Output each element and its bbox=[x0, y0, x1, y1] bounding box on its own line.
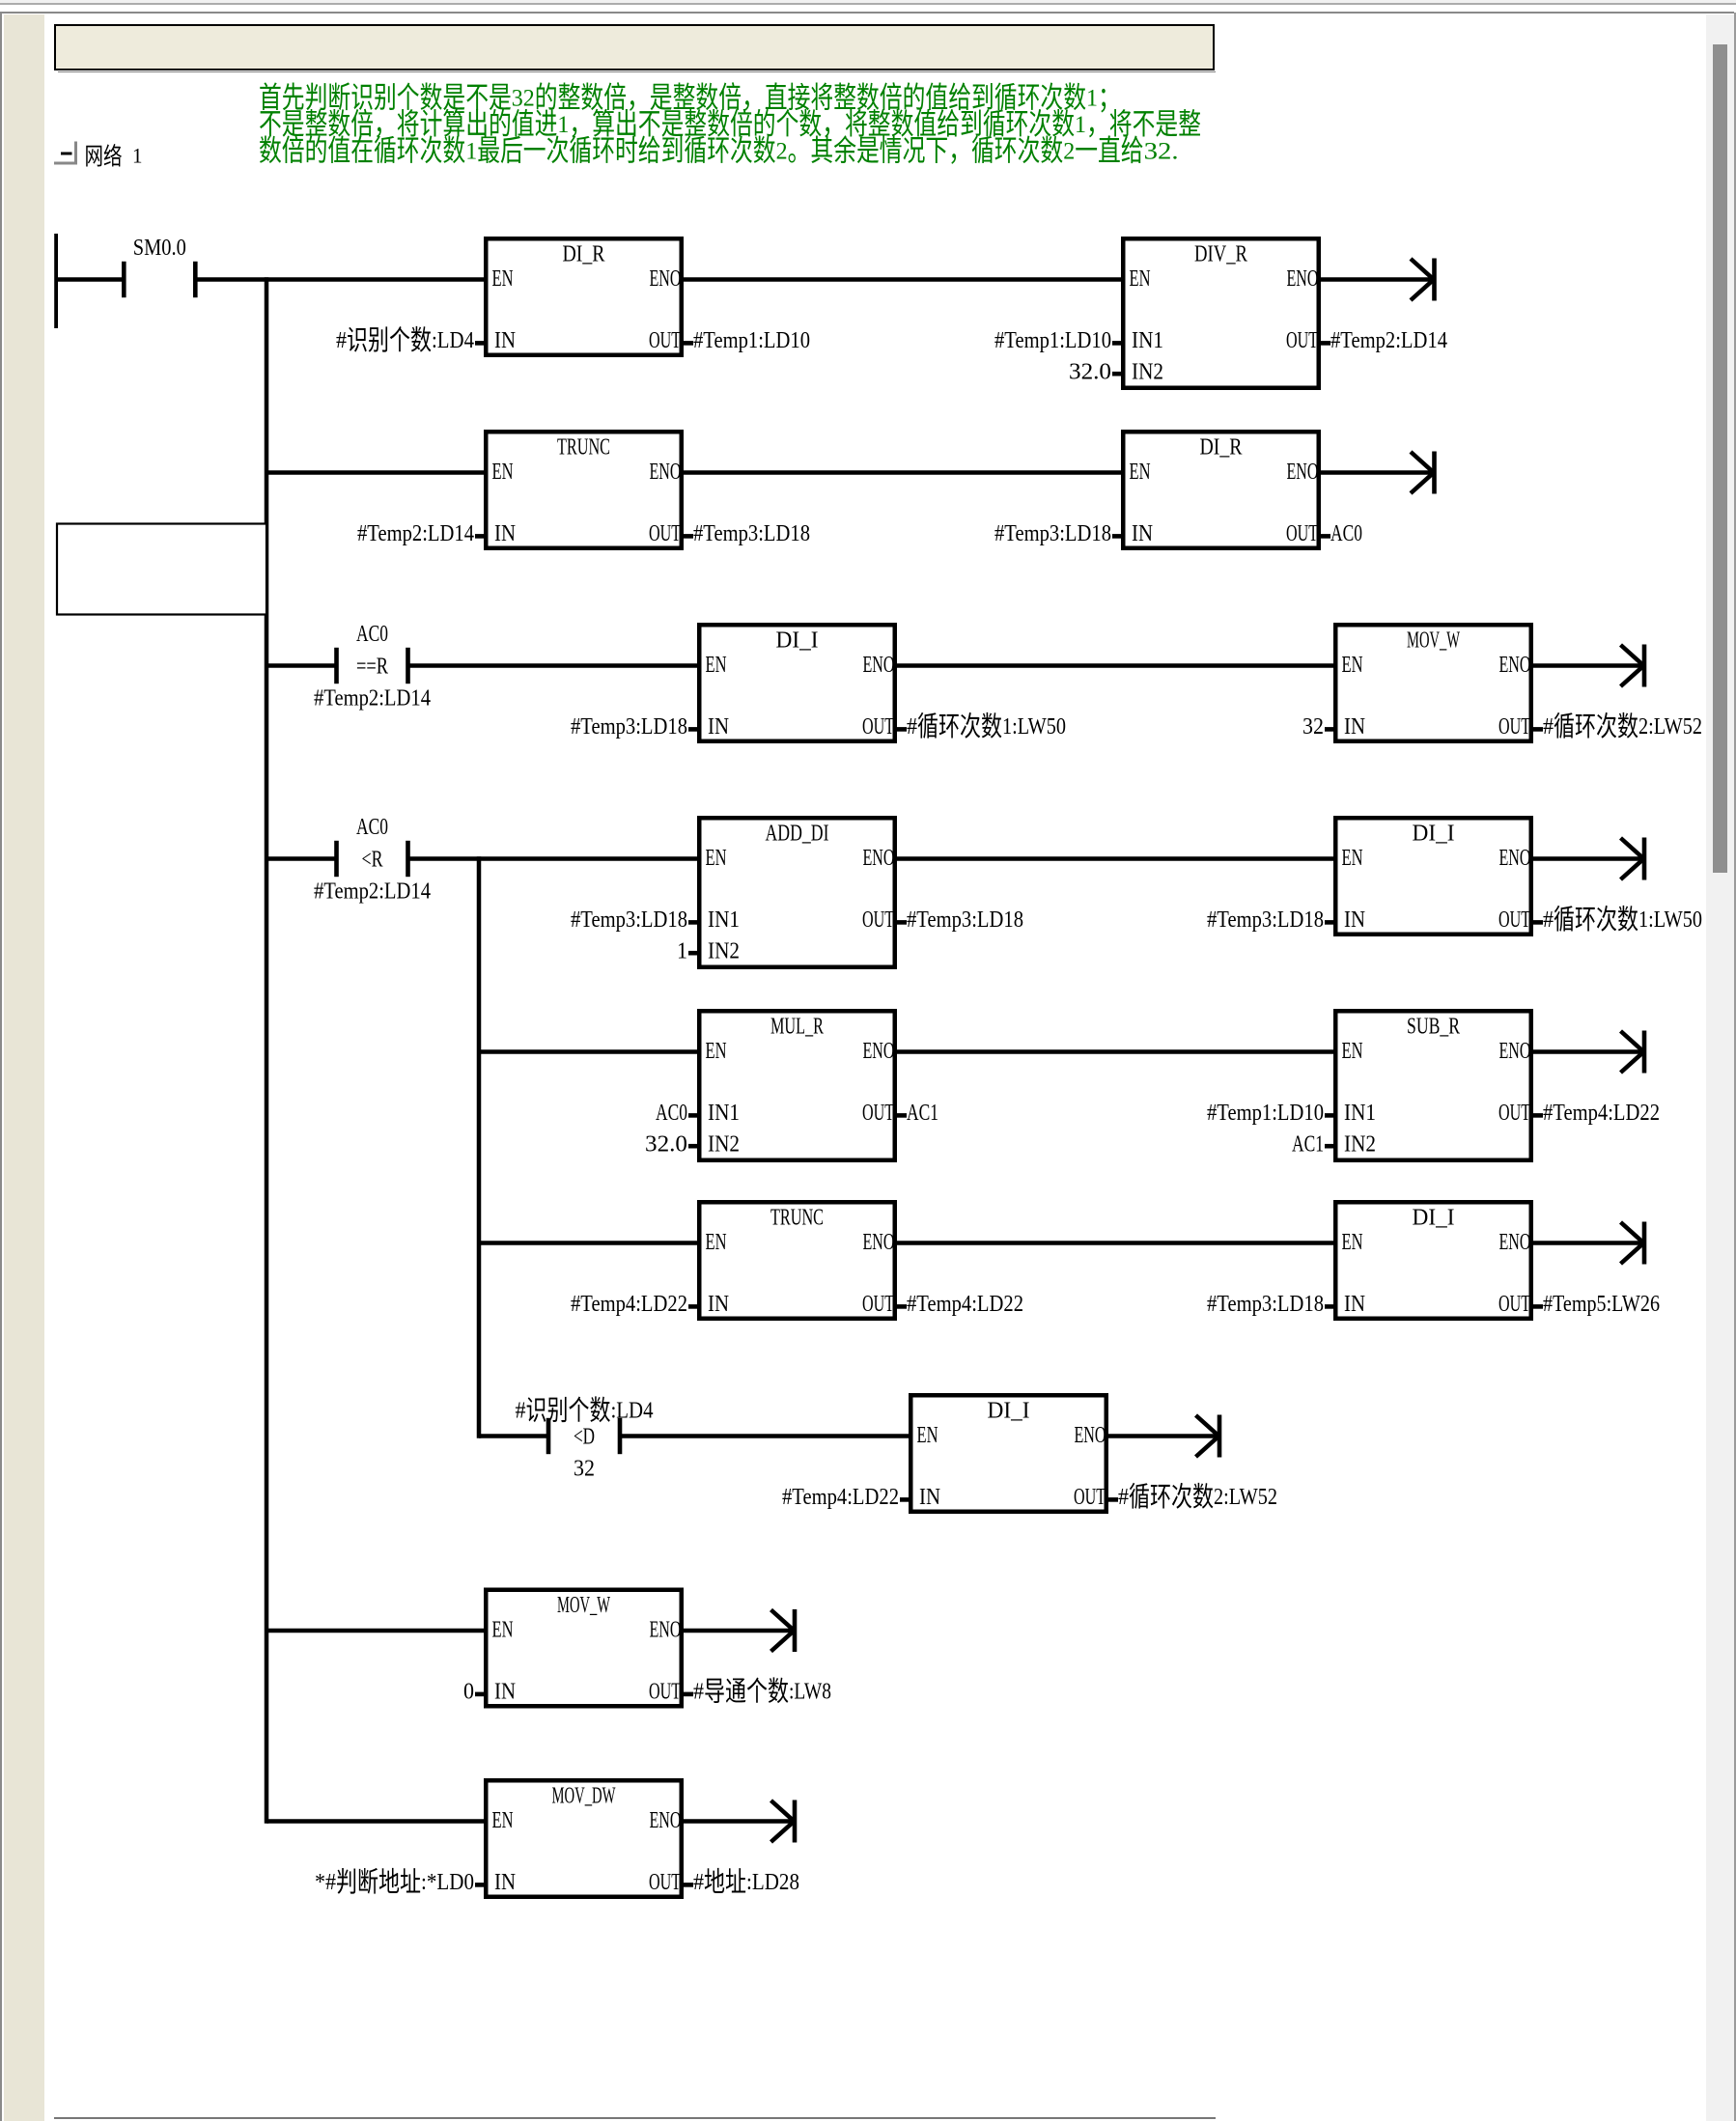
svg-text:IN: IN bbox=[1344, 907, 1365, 933]
svg-text:OUT: OUT bbox=[1498, 907, 1530, 933]
svg-text:#: # bbox=[907, 714, 917, 740]
svg-text:32: 32 bbox=[574, 1457, 595, 1482]
svg-text:EN: EN bbox=[706, 846, 727, 871]
svg-text:ENO: ENO bbox=[650, 460, 682, 485]
svg-text:1:LW50: 1:LW50 bbox=[1638, 907, 1702, 933]
sub branch wire bbox=[477, 856, 482, 1437]
svg-text:网络: 网络 bbox=[85, 144, 123, 171]
function block TRUNC U3 bbox=[357, 432, 810, 548]
svg-text:IN: IN bbox=[919, 1485, 940, 1510]
svg-text:1: 1 bbox=[465, 139, 477, 165]
svg-text:==R: ==R bbox=[356, 655, 388, 680]
svg-text:IN2: IN2 bbox=[708, 939, 740, 964]
svg-text:<D: <D bbox=[574, 1425, 595, 1450]
svg-text:MOV_W: MOV_W bbox=[1407, 628, 1460, 654]
function block DI_I U13 bbox=[782, 1395, 1277, 1513]
wire bbox=[479, 1241, 697, 1245]
svg-text:OUT: OUT bbox=[862, 1292, 894, 1317]
svg-text::LD4: :LD4 bbox=[432, 328, 474, 353]
svg-text::LD28: :LD28 bbox=[746, 1870, 799, 1895]
svg-text:SM0.0: SM0.0 bbox=[133, 236, 186, 261]
svg-text:EN: EN bbox=[706, 1039, 727, 1064]
svg-text:IN: IN bbox=[494, 1870, 516, 1895]
svg-text:IN1: IN1 bbox=[1132, 328, 1163, 353]
svg-text:#Temp5:LW26: #Temp5:LW26 bbox=[1543, 1292, 1660, 1317]
svg-text:IN: IN bbox=[1344, 1292, 1365, 1317]
svg-text:IN: IN bbox=[708, 714, 729, 740]
svg-text:2: 2 bbox=[1063, 139, 1075, 165]
svg-text:IN1: IN1 bbox=[1344, 1101, 1376, 1126]
svg-text:SUB_R: SUB_R bbox=[1407, 1015, 1460, 1040]
svg-text:ENO: ENO bbox=[863, 653, 895, 678]
svg-text:ENO: ENO bbox=[1499, 1039, 1531, 1064]
svg-text:IN: IN bbox=[1344, 714, 1365, 740]
svg-text:MOV_DW: MOV_DW bbox=[552, 1784, 616, 1809]
contact compare ==R bbox=[314, 622, 431, 712]
wire bbox=[1533, 1241, 1642, 1245]
svg-text:2:LW52: 2:LW52 bbox=[1638, 714, 1702, 740]
svg-text:OUT: OUT bbox=[862, 1101, 894, 1126]
wire bbox=[56, 277, 124, 282]
svg-text:OUT: OUT bbox=[1498, 1101, 1530, 1126]
svg-text:1: 1 bbox=[132, 144, 143, 168]
svg-text:#Temp2:LD14: #Temp2:LD14 bbox=[1330, 328, 1447, 353]
window right border bbox=[1734, 13, 1736, 2121]
svg-text:IN: IN bbox=[494, 328, 516, 353]
svg-text:EN: EN bbox=[706, 653, 727, 678]
svg-text:数倍的值在循环次数: 数倍的值在循环次数 bbox=[259, 134, 465, 168]
svg-text:IN: IN bbox=[494, 521, 516, 546]
wire bbox=[684, 1629, 793, 1633]
svg-text:AC1: AC1 bbox=[1292, 1132, 1324, 1158]
svg-text:MUL_R: MUL_R bbox=[770, 1015, 824, 1040]
svg-text:DI_I: DI_I bbox=[776, 628, 819, 654]
window chrome top light strip bbox=[0, 0, 1736, 3]
svg-text:ENO: ENO bbox=[863, 1039, 895, 1064]
contact compare <R bbox=[314, 815, 431, 905]
svg-text:1: 1 bbox=[677, 939, 687, 964]
svg-text:32.0: 32.0 bbox=[645, 1132, 687, 1158]
svg-text:#: # bbox=[693, 1870, 704, 1895]
wire bbox=[897, 1241, 1333, 1245]
svg-text:识别个数: 识别个数 bbox=[526, 1396, 611, 1427]
function block DI_I U8 bbox=[1207, 818, 1702, 935]
wire bbox=[1533, 856, 1642, 861]
function block MOV_DW U15 bbox=[315, 1780, 799, 1898]
wire bbox=[684, 470, 1121, 475]
svg-text:#: # bbox=[693, 1680, 704, 1705]
arrow continuation A7 bbox=[1196, 1415, 1222, 1458]
svg-text:0: 0 bbox=[463, 1680, 474, 1705]
svg-text:#Temp3:LD18: #Temp3:LD18 bbox=[907, 907, 1023, 933]
svg-text::*LD0: :*LD0 bbox=[421, 1870, 474, 1895]
title bar shadow bottom bbox=[58, 71, 1216, 73]
svg-text:32: 32 bbox=[1302, 714, 1324, 740]
svg-text:#Temp3:LD18: #Temp3:LD18 bbox=[1207, 907, 1324, 933]
svg-text:判断地址: 判断地址 bbox=[336, 1867, 421, 1898]
svg-text:IN1: IN1 bbox=[708, 1101, 740, 1126]
svg-text:#Temp2:LD14: #Temp2:LD14 bbox=[314, 686, 431, 712]
next network separator line at bottom bbox=[54, 2117, 1216, 2119]
svg-text:IN: IN bbox=[708, 1292, 729, 1317]
svg-text:ADD_DI: ADD_DI bbox=[766, 822, 829, 847]
function block DI_I U5 bbox=[571, 625, 1066, 742]
svg-text:EN: EN bbox=[706, 1230, 727, 1255]
svg-text:DI_R: DI_R bbox=[1200, 435, 1243, 460]
window chrome top line 2 bbox=[0, 12, 1734, 14]
svg-text:EN: EN bbox=[492, 460, 514, 485]
svg-text:DI_I: DI_I bbox=[988, 1399, 1030, 1424]
arrow continuation A9 bbox=[771, 1800, 798, 1843]
function block MUL_R U9 bbox=[645, 1011, 938, 1160]
svg-text:DI_I: DI_I bbox=[1413, 822, 1455, 847]
function block SUB_R U10 bbox=[1207, 1011, 1660, 1160]
svg-text:EN: EN bbox=[492, 1808, 514, 1833]
svg-text:ENO: ENO bbox=[1499, 846, 1531, 871]
arrow continuation A6 bbox=[1621, 1222, 1647, 1265]
svg-text:一直给: 一直给 bbox=[1075, 134, 1143, 168]
svg-text:#: # bbox=[516, 1399, 526, 1424]
svg-text::LD4: :LD4 bbox=[611, 1399, 654, 1424]
svg-text:32.: 32. bbox=[1144, 139, 1179, 165]
svg-text:OUT: OUT bbox=[1074, 1485, 1106, 1510]
svg-text:ENO: ENO bbox=[863, 846, 895, 871]
wire bbox=[1107, 1434, 1218, 1438]
svg-text:ENO: ENO bbox=[1499, 1230, 1531, 1255]
svg-text:#Temp3:LD18: #Temp3:LD18 bbox=[994, 521, 1111, 546]
wire bbox=[1321, 277, 1433, 282]
window left border bbox=[0, 13, 2, 2121]
svg-text:OUT: OUT bbox=[1286, 521, 1318, 546]
svg-text:TRUNC: TRUNC bbox=[557, 435, 610, 460]
svg-text:OUT: OUT bbox=[649, 1680, 681, 1705]
label network 1 bbox=[85, 144, 143, 171]
svg-text:#Temp4:LD22: #Temp4:LD22 bbox=[571, 1292, 687, 1317]
window chrome top line 1 bbox=[0, 3, 1736, 5]
svg-text:#Temp1:LD10: #Temp1:LD10 bbox=[1207, 1101, 1324, 1126]
wire bbox=[408, 663, 698, 668]
svg-text:#Temp3:LD18: #Temp3:LD18 bbox=[571, 714, 687, 740]
svg-text:#: # bbox=[336, 328, 347, 353]
svg-text:导通个数: 导通个数 bbox=[704, 1677, 789, 1708]
svg-text:EN: EN bbox=[1342, 846, 1363, 871]
svg-text::LW8: :LW8 bbox=[789, 1680, 831, 1705]
function block DI_R U1 bbox=[336, 238, 810, 356]
svg-text:#Temp3:LD18: #Temp3:LD18 bbox=[571, 907, 687, 933]
svg-text:#Temp1:LD10: #Temp1:LD10 bbox=[994, 328, 1111, 353]
svg-text:循环次数: 循环次数 bbox=[1129, 1482, 1214, 1513]
svg-text:ENO: ENO bbox=[1075, 1423, 1106, 1448]
svg-text:OUT: OUT bbox=[862, 907, 894, 933]
function block MOV_W U6 bbox=[1302, 625, 1702, 742]
svg-text:*#: *# bbox=[315, 1870, 336, 1895]
svg-text:OUT: OUT bbox=[649, 328, 681, 353]
wire bbox=[266, 470, 484, 475]
svg-text:#Temp2:LD14: #Temp2:LD14 bbox=[357, 521, 474, 546]
svg-text:IN: IN bbox=[494, 1680, 516, 1705]
contact compare <D bbox=[516, 1396, 654, 1482]
svg-text:AC0: AC0 bbox=[656, 1101, 687, 1126]
network title bar bbox=[54, 24, 1215, 70]
arrow continuation A1 bbox=[1411, 259, 1437, 301]
svg-text:#Temp1:LD10: #Temp1:LD10 bbox=[693, 328, 810, 353]
function block TRUNC U11 bbox=[571, 1202, 1023, 1319]
svg-text:#Temp4:LD22: #Temp4:LD22 bbox=[782, 1485, 899, 1510]
svg-text:IN1: IN1 bbox=[708, 907, 740, 933]
wire bbox=[266, 1629, 484, 1633]
contact SM0.0 bbox=[122, 236, 198, 297]
wire bbox=[620, 1434, 909, 1438]
left margin beige strip bbox=[4, 14, 44, 2121]
svg-text:<R: <R bbox=[362, 848, 383, 873]
wire bbox=[897, 1049, 1333, 1054]
svg-text:#: # bbox=[1543, 907, 1554, 933]
svg-text:ENO: ENO bbox=[1287, 460, 1319, 485]
wire bbox=[195, 277, 484, 282]
wire bbox=[1321, 470, 1433, 475]
svg-text:IN2: IN2 bbox=[1344, 1132, 1376, 1158]
svg-text:#Temp2:LD14: #Temp2:LD14 bbox=[314, 879, 431, 905]
network comment line 2 bbox=[259, 107, 1201, 141]
svg-text:#Temp3:LD18: #Temp3:LD18 bbox=[693, 521, 810, 546]
arrow continuation A8 bbox=[771, 1609, 798, 1652]
svg-text:DI_I: DI_I bbox=[1413, 1206, 1455, 1231]
svg-text:TRUNC: TRUNC bbox=[770, 1206, 824, 1231]
function block MOV_W U14 bbox=[463, 1590, 831, 1708]
svg-text:DIV_R: DIV_R bbox=[1194, 242, 1247, 267]
svg-text:地址: 地址 bbox=[704, 1867, 746, 1898]
wire bbox=[684, 277, 1121, 282]
function block ADD_DI U7 bbox=[571, 818, 1023, 967]
arrow continuation A3 bbox=[1621, 645, 1647, 687]
svg-text:ENO: ENO bbox=[650, 1617, 682, 1642]
svg-text:IN2: IN2 bbox=[708, 1132, 740, 1158]
svg-text:#Temp4:LD22: #Temp4:LD22 bbox=[1543, 1101, 1660, 1126]
svg-text:OUT: OUT bbox=[1498, 714, 1530, 740]
arrow continuation A5 bbox=[1621, 1031, 1647, 1074]
wire bbox=[897, 856, 1333, 861]
wire bbox=[266, 856, 337, 861]
network comment box (empty) bbox=[57, 524, 266, 615]
arrow continuation A4 bbox=[1621, 838, 1647, 880]
svg-text:AC0: AC0 bbox=[1330, 521, 1362, 546]
network comment line 3 bbox=[259, 134, 1179, 168]
svg-text:循环次数: 循环次数 bbox=[1554, 905, 1638, 935]
svg-text:#Temp3:LD18: #Temp3:LD18 bbox=[1207, 1292, 1324, 1317]
svg-text:EN: EN bbox=[1130, 460, 1151, 485]
scrollbar track bbox=[1706, 14, 1734, 2121]
svg-text:EN: EN bbox=[917, 1423, 938, 1448]
svg-text:OUT: OUT bbox=[862, 714, 894, 740]
function block DI_I U12 bbox=[1207, 1202, 1660, 1319]
svg-text:EN: EN bbox=[1130, 266, 1151, 292]
wire bbox=[479, 1434, 548, 1438]
svg-text:ENO: ENO bbox=[650, 266, 682, 292]
svg-text:#: # bbox=[1118, 1485, 1129, 1510]
arrow continuation A2 bbox=[1411, 452, 1437, 494]
svg-text:IN2: IN2 bbox=[1132, 360, 1163, 385]
network comment line 1 bbox=[259, 81, 1121, 115]
svg-text:#: # bbox=[1543, 714, 1554, 740]
function block DI_R U4 bbox=[994, 432, 1362, 548]
svg-text:ENO: ENO bbox=[863, 1230, 895, 1255]
svg-text:EN: EN bbox=[1342, 653, 1363, 678]
svg-text:ENO: ENO bbox=[1287, 266, 1319, 292]
svg-text:32.0: 32.0 bbox=[1069, 360, 1111, 385]
svg-text:EN: EN bbox=[1342, 1039, 1363, 1064]
wire bbox=[479, 1049, 697, 1054]
svg-text:ENO: ENO bbox=[1499, 653, 1531, 678]
network collapse icon bbox=[54, 142, 77, 165]
wire bbox=[1533, 1049, 1642, 1054]
svg-text:OUT: OUT bbox=[1286, 328, 1318, 353]
wire bbox=[266, 663, 337, 668]
wire bbox=[897, 663, 1333, 668]
left power rail bbox=[54, 234, 58, 328]
svg-text:#Temp4:LD22: #Temp4:LD22 bbox=[907, 1292, 1023, 1317]
svg-text:IN: IN bbox=[1132, 521, 1153, 546]
svg-text:识别个数: 识别个数 bbox=[347, 325, 432, 356]
svg-text:2: 2 bbox=[776, 139, 788, 165]
svg-text:AC1: AC1 bbox=[907, 1101, 938, 1126]
svg-text:2:LW52: 2:LW52 bbox=[1214, 1485, 1277, 1510]
wire bbox=[408, 856, 698, 861]
svg-text:AC0: AC0 bbox=[356, 622, 388, 647]
svg-text:循环次数: 循环次数 bbox=[917, 712, 1002, 742]
wire bbox=[684, 1819, 793, 1824]
wire bbox=[1533, 663, 1642, 668]
scrollbar thumb bbox=[1713, 44, 1727, 873]
wire bbox=[266, 1819, 484, 1824]
svg-text:OUT: OUT bbox=[649, 521, 681, 546]
svg-text:最后一次循环时给到循环次数: 最后一次循环时给到循环次数 bbox=[477, 134, 775, 168]
svg-text:OUT: OUT bbox=[649, 1870, 681, 1895]
svg-text:DI_R: DI_R bbox=[563, 242, 605, 267]
function block DIV_R U2 bbox=[994, 238, 1447, 388]
svg-text:ENO: ENO bbox=[650, 1808, 682, 1833]
svg-text:AC0: AC0 bbox=[356, 815, 388, 840]
svg-text:EN: EN bbox=[492, 266, 514, 292]
svg-text:MOV_W: MOV_W bbox=[557, 1593, 610, 1618]
svg-text:OUT: OUT bbox=[1498, 1292, 1530, 1317]
svg-text:循环次数: 循环次数 bbox=[1554, 712, 1638, 742]
svg-text:EN: EN bbox=[492, 1617, 514, 1642]
svg-text:。其余是情况下，循环次数: 。其余是情况下，循环次数 bbox=[788, 134, 1064, 168]
svg-text:1:LW50: 1:LW50 bbox=[1002, 714, 1066, 740]
main branch wire bbox=[265, 277, 269, 1823]
svg-text:EN: EN bbox=[1342, 1230, 1363, 1255]
